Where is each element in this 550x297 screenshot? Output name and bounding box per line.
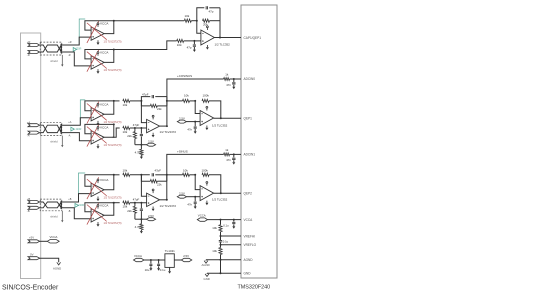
label 10k R21: [212, 249, 217, 253]
feedback wire loop U6B: [85, 202, 115, 216]
label +COSINUS: [177, 74, 192, 78]
label GND (TMS): [204, 277, 210, 281]
svg-text:QEP1: QEP1: [244, 116, 253, 120]
encoder box outline: [21, 33, 41, 279]
label 47pF C8: [133, 198, 140, 202]
svg-text:+B: +B: [27, 197, 31, 201]
pin name -A: [27, 134, 30, 138]
connector pin A+ (encoder): [28, 124, 40, 127]
net label +B outside: [68, 198, 71, 201]
AGND arrow (encoder): [57, 262, 61, 265]
svg-text:-B: -B: [68, 210, 71, 213]
label 10u C11: [145, 268, 150, 272]
twisted pair wires B: [40, 202, 61, 208]
ground pin U9: [168, 267, 171, 273]
op-amp U2 1/2 TLC352: [201, 30, 215, 45]
label 2.5V (reference output): [183, 254, 189, 258]
resistor R19 100k (feedback): [202, 173, 209, 176]
GND arrow (TMS): [205, 273, 209, 276]
node qep1 junction: [220, 117, 222, 119]
svg-text:10k: 10k: [177, 43, 182, 47]
feedback cap branch wire: [197, 8, 220, 38]
label 1/2 TLC352 U5: [212, 124, 228, 128]
wire R14 to + input U7: [130, 202, 147, 204]
connector pin 0V (encoder): [28, 257, 40, 260]
wire GND line: [207, 272, 241, 274]
svg-text:+R: +R: [68, 41, 71, 44]
svg-text:ADCIN1: ADCIN1: [244, 153, 256, 157]
ground C9: [232, 160, 235, 164]
pin label ADCIN0: [244, 77, 256, 81]
op-amp U6A (marked, 1/2 TLV2372): [87, 177, 107, 199]
resistor R8 4.7k to ground: [140, 145, 143, 157]
pin label VCCA: [244, 218, 254, 222]
connector pin B- (encoder): [28, 206, 40, 209]
svg-text:10k: 10k: [183, 168, 188, 172]
twisted pair wires A: [40, 125, 61, 132]
wire R12 to node N1b: [130, 174, 150, 176]
net label +R outside: [68, 41, 71, 44]
svg-text:ADCIN0: ADCIN0: [244, 77, 256, 81]
svg-text:GND: GND: [204, 277, 210, 281]
wire U6B out lower path: [113, 202, 120, 204]
flag VCCA (encoder supply): [47, 240, 59, 243]
wire A- to buffer U3B: [62, 133, 91, 141]
pin label GND: [244, 272, 252, 276]
ground of U1A: [97, 40, 100, 45]
capacitor C9 47n to ground: [232, 154, 235, 159]
node Pa: [134, 127, 136, 129]
resistor R21 10k (divider bottom): [219, 245, 222, 260]
shield drain wire R: [61, 55, 63, 67]
label 1k R9: [225, 73, 229, 77]
connector pin R- (encoder): [28, 51, 40, 54]
VCCA pin U8: [206, 182, 208, 186]
capacitor C1 47p (feedback): [206, 6, 207, 9]
svg-text:47n: 47n: [226, 158, 231, 162]
wire agnd to gnd: [220, 260, 222, 274]
wire VREFLO: [221, 244, 242, 246]
capacitor C13 0.1u bypass: [232, 220, 235, 224]
label 10k R4: [123, 103, 128, 107]
wire U1B output line: [114, 41, 177, 50]
ground pin U5: [205, 126, 208, 131]
resistor R18 10k: [183, 173, 190, 176]
op-amp U5 1/2 TLC352 (stage2 mid): [200, 111, 214, 126]
ground C11: [149, 266, 152, 270]
svg-text:47p: 47p: [187, 46, 192, 50]
wire minus input U7: [141, 175, 146, 197]
svg-text:220R: 220R: [76, 128, 82, 131]
feedback cap branch (up): [141, 97, 167, 101]
label 47pF C7: [155, 168, 162, 172]
op-amp U3A (marked, 1/2 TLV2372): [87, 102, 107, 124]
label TMS320F240: [238, 284, 271, 290]
resistor R2 20k (feedback): [203, 19, 210, 22]
label 10k R20: [212, 226, 217, 230]
op-amp U1A (marked, 1/2 TLV2372): [87, 21, 107, 43]
label 1k R17: [225, 148, 229, 152]
svg-text:47n: 47n: [187, 203, 192, 207]
svg-text:220R: 220R: [76, 48, 82, 51]
svg-text:1/2 TLV2372(TI): 1/2 TLV2372(TI): [104, 197, 122, 200]
node N1a: [140, 100, 142, 102]
svg-text:10k: 10k: [123, 103, 128, 107]
label 4.7k R8: [135, 151, 141, 155]
ground C5: [232, 85, 235, 89]
wire U3A out to R4: [114, 100, 120, 102]
wire inverting input U2: [197, 21, 201, 34]
feedback wire to output: [209, 101, 221, 118]
label 0.1u C14: [223, 240, 229, 244]
label 220R group B: [78, 204, 84, 207]
svg-text:-B: -B: [27, 209, 30, 213]
svg-text:100k: 100k: [203, 93, 210, 97]
net label -R outside: [68, 54, 71, 57]
label 2.5V mid-stage1: [148, 140, 154, 144]
wire R+ to buffer U1A: [62, 37, 91, 45]
svg-text:+R: +R: [27, 40, 31, 44]
resistor R12 10k: [123, 173, 130, 176]
resistor R5 22k: [150, 104, 157, 107]
label 1/2 TLV2372(TI) U3A: [104, 121, 122, 124]
bias join wire: [135, 144, 147, 146]
svg-text:AGND: AGND: [53, 267, 61, 271]
node gnd: [220, 272, 222, 274]
svg-text:47pF: 47pF: [155, 168, 162, 172]
svg-text:1k: 1k: [225, 148, 229, 152]
svg-text:+COSINUS: +COSINUS: [177, 74, 192, 78]
twisted pair wires R: [40, 45, 61, 52]
resistor R20 10k (divider top): [219, 220, 222, 236]
IC U9 TL1431 box: [165, 254, 174, 268]
node vrefhi: [220, 235, 222, 237]
svg-text:AGND: AGND: [244, 258, 254, 262]
wire U4 output: [160, 125, 167, 127]
capacitor C10 47n: [194, 197, 197, 204]
wire N2b to R18: [167, 174, 183, 176]
op-amp U8 1/2 TLC352 (stage2 bottom): [200, 186, 214, 201]
svg-text:100k: 100k: [202, 168, 209, 172]
VCCA power pin of U3B: [97, 125, 109, 130]
label 1/2 TLV2372 U4: [160, 130, 177, 134]
label 4.7k R16: [135, 225, 141, 229]
bias resistor R15 22k: [133, 203, 136, 220]
label 22k R5: [157, 107, 162, 111]
svg-text:47pF: 47pF: [133, 198, 140, 202]
label 10k R10: [184, 93, 189, 97]
label 47p C2: [187, 46, 192, 50]
label 0.1u C13: [223, 224, 229, 228]
svg-text:VCCA: VCCA: [100, 102, 109, 106]
svg-text:+A: +A: [68, 121, 71, 124]
resistor R16 4.7k to ground: [140, 219, 143, 231]
pair end bar B: [60, 201, 62, 209]
label 22k R13: [157, 183, 162, 187]
svg-text:47p: 47p: [209, 9, 214, 13]
resistor R1 10k: [184, 19, 191, 22]
wire N2a to R10: [167, 100, 183, 102]
label 1/2 TLV2372(TI) U6A: [104, 197, 122, 200]
wire C7 to node N2b: [155, 174, 167, 176]
svg-text:-R: -R: [27, 53, 30, 57]
capacitor C7 47pF (on line): [152, 173, 153, 176]
svg-text:TMS320F240: TMS320F240: [238, 284, 271, 290]
label shield B: [50, 215, 58, 219]
green input wire group A: [80, 100, 85, 125]
flag 2.5V mid-stage2: [177, 120, 186, 123]
pin label CAP1/QEP1: [244, 36, 262, 40]
feedback wire loop U1B: [85, 49, 115, 63]
wire R18 to node N3b: [190, 174, 196, 176]
pin name +A: [27, 120, 31, 124]
VCCA pin U2: [207, 26, 209, 30]
svg-text:47n: 47n: [187, 128, 192, 132]
wire to ADCIN0 (+COSINUS): [167, 79, 221, 101]
svg-text:0.1u: 0.1u: [160, 268, 166, 272]
pin label QEP2: [244, 191, 253, 195]
label 10k R3: [177, 43, 182, 47]
svg-text:VCCA: VCCA: [100, 178, 109, 182]
pin label ADCIN1: [244, 153, 256, 157]
ground R16: [140, 231, 143, 233]
label 47n C6: [187, 128, 192, 132]
svg-text:47n: 47n: [226, 83, 231, 87]
resistor R3 10k: [177, 39, 184, 42]
ground pin U2: [206, 45, 209, 50]
svg-text:SIN/COS-Encoder: SIN/COS-Encoder: [2, 284, 59, 291]
svg-text:CAP1/QEP1: CAP1/QEP1: [244, 36, 262, 40]
node N1b: [140, 174, 142, 176]
feedback wire loop U1A: [85, 20, 115, 34]
pair end bar R: [60, 44, 62, 53]
capacitor C3 47pF: [152, 95, 153, 98]
svg-text:AGND: AGND: [202, 263, 210, 267]
resistor R6 10k: [123, 126, 130, 129]
svg-text:VREFHI: VREFHI: [244, 234, 256, 238]
svg-text:VCCA: VCCA: [100, 51, 109, 55]
svg-text:2.5V: 2.5V: [148, 214, 154, 218]
svg-text:1/2 TLV2372(TI): 1/2 TLV2372(TI): [104, 69, 122, 72]
feedback wire loop U3A: [85, 100, 115, 114]
wire R17 to ADCIN1 pin: [221, 153, 241, 155]
pin name +B: [27, 197, 31, 201]
VCCA pin U5: [206, 106, 208, 110]
flag VCCA (TMS supply): [197, 218, 207, 221]
ground C13: [232, 224, 235, 228]
svg-text:-R: -R: [68, 54, 71, 57]
net label -B outside: [68, 210, 71, 213]
svg-text:1/2 TLV2372(TI): 1/2 TLV2372(TI): [104, 40, 122, 43]
op-amp U3B (marked, 1/2 TLV2372): [87, 125, 107, 147]
svg-text:VREFLO: VREFLO: [244, 243, 257, 247]
op-amp U1B (marked, 1/2 TLV2372): [87, 50, 107, 72]
label 10k R12: [123, 168, 128, 172]
svg-text:shield: shield: [50, 139, 58, 143]
label 47p C1: [209, 9, 214, 13]
wire R1 to node N1r: [191, 20, 197, 22]
svg-text:1k: 1k: [225, 73, 229, 77]
bias resistor R7 22k: [133, 128, 136, 145]
label 22k R7: [127, 134, 132, 138]
wire B- to buffer U6B: [62, 208, 91, 219]
ground of U3A: [97, 121, 100, 126]
label 1/2 TLV2372(TI) U3B: [104, 144, 122, 147]
resistor R14 10k: [123, 201, 130, 204]
svg-text:220R: 220R: [78, 204, 84, 207]
wire +5V to VCCA flag: [39, 240, 47, 242]
wire U2 output to CAP1/QEP1: [214, 37, 241, 39]
svg-text:2.5V: 2.5V: [179, 192, 185, 196]
wire 0V to AGND: [39, 258, 59, 262]
label 1/2 TLV2372 U7: [160, 204, 177, 208]
capacitor C11 10u: [149, 260, 152, 266]
shield drain wire A: [61, 136, 63, 148]
net label -A outside: [68, 135, 71, 138]
svg-text:10k: 10k: [185, 14, 190, 18]
ground C12: [157, 266, 160, 270]
resistor R10 10k: [183, 99, 190, 102]
feedback resistor branch (down) b: [141, 175, 166, 181]
ground of U1B: [97, 69, 100, 74]
wire 2.5V to + input U8: [187, 196, 201, 198]
svg-text:0V: 0V: [30, 253, 34, 257]
connector pin R+ (encoder): [28, 44, 40, 47]
label 47n C9: [226, 158, 231, 162]
capacitor C14 0.1u (vref): [219, 236, 222, 245]
label 47pF C3: [142, 92, 149, 96]
node out-a: [166, 125, 168, 127]
node c11: [150, 259, 152, 261]
op-amp U7 1/2 TLV2372 (stage1 bottom): [147, 193, 160, 206]
wire U6A out to R12: [114, 174, 120, 176]
flag VCCA (regulator input): [134, 258, 145, 261]
node bias-b: [140, 218, 142, 220]
wire U5 output to QEP1: [214, 117, 241, 119]
svg-text:VCCA: VCCA: [100, 22, 109, 26]
VCCA pin U7: [152, 189, 154, 193]
ground of U3B: [97, 144, 100, 149]
label 1/2 TLV2372(TI) U6B: [104, 222, 122, 225]
pin name -B: [27, 209, 30, 213]
label 10k R14: [123, 205, 128, 209]
wire R4 to node N1a: [130, 100, 142, 102]
node Pb: [134, 202, 136, 204]
label shield A: [50, 139, 58, 143]
connector pin +5V (encoder): [28, 240, 40, 243]
label VCCA (regulator input): [134, 254, 142, 258]
svg-text:10u: 10u: [145, 268, 150, 272]
svg-text:2.5V: 2.5V: [183, 254, 189, 258]
cable shield box B: [40, 199, 62, 211]
node Qa: [140, 127, 142, 129]
wire U9 output: [174, 259, 181, 261]
resistor R17 1k: [224, 153, 230, 156]
svg-text:22k: 22k: [157, 107, 162, 111]
svg-text:2.5V: 2.5V: [179, 117, 185, 121]
label VCCA (encoder supply): [50, 235, 58, 239]
ground pin U4: [152, 133, 155, 138]
label 0.1u C12: [160, 268, 166, 272]
node c13: [233, 219, 235, 221]
label 10k R18: [183, 168, 188, 172]
svg-text:4.7k: 4.7k: [135, 151, 141, 155]
wire A+ to buffer U3A: [62, 118, 91, 126]
net label +A outside: [68, 121, 71, 124]
TMS320F240 box outline: [241, 5, 277, 278]
bias join wire b: [135, 218, 147, 220]
VCCA pin U4: [152, 115, 154, 119]
node N4a: [194, 121, 196, 123]
svg-text:GND: GND: [244, 272, 252, 276]
wire N2b to output: [166, 175, 168, 200]
wire 2.5V to + input U5: [187, 121, 201, 123]
node N2b: [166, 174, 168, 176]
svg-text:10k: 10k: [212, 226, 217, 230]
node N2r: [193, 40, 195, 42]
cable shield box A: [40, 122, 62, 135]
label 0V: [30, 253, 34, 257]
VCCA power pin of U6B: [97, 203, 109, 208]
bias capacitor C4 (parallel): [140, 128, 143, 145]
connector pin A- (encoder): [28, 131, 40, 134]
label 1/2 TLV2372(TI) U1B: [104, 69, 122, 72]
resistor R4 10k: [123, 99, 130, 102]
label 10k R1: [185, 14, 190, 18]
ground of U6A: [97, 197, 100, 202]
svg-text:2.5V: 2.5V: [148, 140, 154, 144]
pin name -R: [27, 53, 30, 57]
svg-text:-A: -A: [68, 135, 71, 138]
svg-text:0.1u: 0.1u: [223, 224, 229, 228]
label +SINUS: [177, 150, 188, 154]
wire flag to TL1431: [144, 259, 165, 261]
label 10k R6: [123, 130, 128, 134]
svg-text:10k: 10k: [212, 249, 217, 253]
ground R8: [140, 157, 143, 159]
svg-text:47pF: 47pF: [133, 123, 140, 127]
wire U7 output: [160, 199, 167, 201]
ground of U6B: [97, 222, 100, 227]
svg-text:1/2 TLC352: 1/2 TLC352: [215, 42, 231, 46]
svg-text:10k: 10k: [184, 93, 189, 97]
feedback wire to output b: [209, 175, 221, 194]
node N4b: [194, 196, 196, 198]
resistor R11 100k (feedback): [202, 99, 209, 102]
label 1/2 TLV2372(TI) U1A: [104, 40, 122, 43]
cable shield box R: [40, 42, 62, 55]
label 2.5V bot-stage1: [148, 214, 154, 218]
label AGND (TMS): [202, 263, 210, 267]
svg-text:22k: 22k: [127, 209, 132, 213]
capacitor C2 47p to ground: [193, 41, 196, 46]
wire VREFHI: [221, 235, 242, 237]
label 220R group R: [76, 48, 82, 51]
pin label VREFHI: [244, 234, 256, 238]
VCCA power pin of U1B: [97, 51, 109, 56]
label 47n C5: [226, 83, 231, 87]
svg-text:1/2 TLC352: 1/2 TLC352: [212, 124, 228, 128]
pin label QEP1: [244, 116, 253, 120]
svg-text:QEP2: QEP2: [244, 191, 253, 195]
node N3a: [194, 100, 196, 102]
wire N2a to output: [166, 101, 168, 126]
VCCA power pin of U6A: [97, 178, 109, 183]
svg-text:47pF: 47pF: [142, 92, 149, 96]
shield drain wire B: [61, 211, 63, 223]
label 22k R15: [127, 209, 132, 213]
flag 2.5V mid-stage1: [146, 143, 155, 146]
